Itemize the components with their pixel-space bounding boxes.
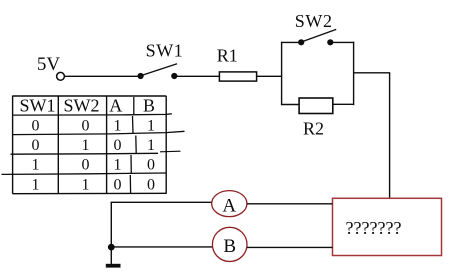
svg-text:0: 0 [32, 137, 40, 154]
svg-text:???????: ??????? [346, 218, 402, 238]
ground [106, 264, 121, 268]
svg-text:SW1: SW1 [146, 41, 184, 61]
svg-text:0: 0 [32, 118, 40, 135]
svg-text:1: 1 [82, 177, 90, 194]
switch SW1 [138, 64, 178, 79]
truth table: left border [12, 96, 14, 194]
wire: A left segment [111, 201, 212, 203]
svg-text:SW1: SW1 [20, 96, 56, 116]
svg-text:A: A [222, 196, 236, 217]
switch SW2 [298, 29, 336, 45]
svg-text:5V: 5V [37, 54, 61, 75]
svg-text:0: 0 [82, 157, 90, 174]
indicator A (ellipse) [212, 191, 247, 217]
truth table row 1 values [32, 118, 156, 135]
svg-text:B: B [223, 236, 236, 257]
svg-text:0: 0 [114, 177, 122, 194]
truth table: column separator SW2|A [106, 96, 108, 194]
svg-text:R2: R2 [303, 118, 324, 138]
wire: R1 to parallel block [257, 75, 283, 77]
svg-text:1: 1 [32, 177, 40, 194]
wire: SW1 to R1 [174, 75, 219, 77]
truth table row 4 values [32, 177, 156, 194]
svg-text:1: 1 [82, 137, 90, 154]
svg-text:R1: R1 [217, 45, 238, 65]
wire: B right segment [247, 246, 333, 248]
svg-text:0: 0 [82, 118, 90, 135]
truth table: header separator row line [13, 114, 172, 115]
truth table: column separator SW1|SW2 [57, 96, 59, 194]
wire: bottom branch right segment [333, 103, 354, 105]
wire: block output horizontal [354, 72, 391, 74]
truth table: top border [13, 95, 167, 97]
truth table: right border [165, 96, 167, 194]
wire: B left segment [111, 246, 212, 248]
svg-text:1: 1 [114, 157, 122, 174]
node: left junction vertical of SW2/R2 block [281, 42, 283, 105]
svg-text:SW2: SW2 [295, 11, 333, 31]
truth table header text [20, 96, 156, 116]
truth table: column separator A|B (wobbly segments) [130, 97, 136, 193]
wire: top branch left segment [282, 41, 300, 43]
truth table: row 2 separator right dash [160, 150, 181, 153]
wire: 5V terminal to SW1 [65, 75, 139, 77]
svg-text:1: 1 [147, 137, 155, 154]
truth table: row 3 separator line [2, 173, 167, 174]
wire: top branch right segment [331, 41, 354, 43]
svg-text:1: 1 [32, 157, 40, 174]
svg-text:1: 1 [114, 118, 122, 135]
truth table: bottom border [13, 192, 167, 194]
node: right junction vertical of SW2/R2 block [353, 42, 355, 105]
truth table row 2 values [32, 137, 156, 154]
svg-text:SW2: SW2 [64, 96, 100, 116]
truth table: row 2 separator line [11, 152, 159, 155]
svg-text:B: B [143, 96, 155, 116]
junction dot [108, 244, 115, 251]
truth table row 3 values [32, 157, 156, 174]
resistor R2 [299, 98, 333, 114]
svg-text:A: A [109, 96, 122, 116]
wire: vertical down to mystery box [389, 73, 391, 199]
resistor R1 [219, 72, 256, 81]
truth table: row 1 separator line [13, 131, 185, 134]
wire: bottom branch left segment [282, 104, 300, 106]
indicator B (circle) [212, 227, 247, 261]
wire: A right segment [247, 203, 333, 205]
terminal: 5V open circle [57, 72, 65, 80]
svg-text:0: 0 [147, 157, 155, 174]
mystery box [333, 198, 442, 255]
wire: vertical from A corner down to ground [110, 202, 112, 264]
svg-text:1: 1 [147, 118, 155, 135]
svg-text:0: 0 [147, 177, 155, 194]
svg-text:0: 0 [114, 137, 122, 154]
